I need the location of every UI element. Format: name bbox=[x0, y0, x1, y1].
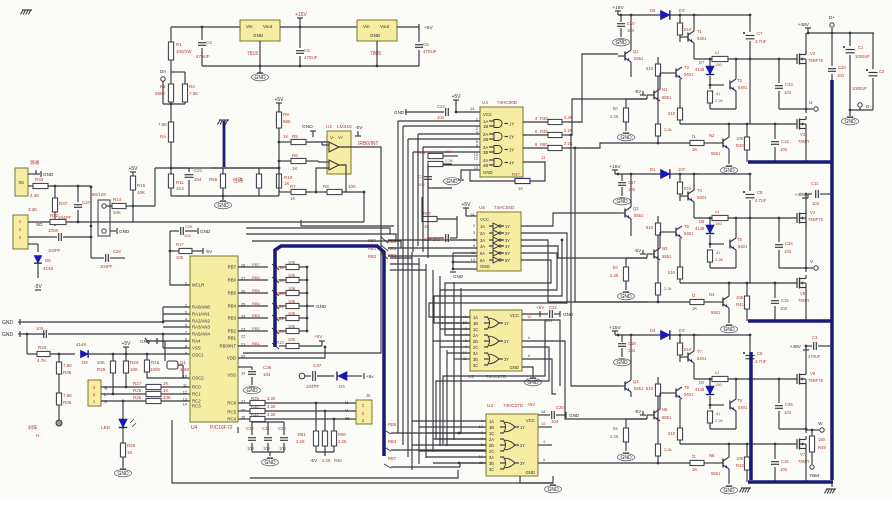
svg-text:3A: 3A bbox=[489, 455, 494, 460]
wire bbox=[316, 452, 334, 456]
transistor T3 bbox=[668, 67, 682, 79]
svg-text:3B: 3B bbox=[473, 357, 478, 362]
svg-text:R30: R30 bbox=[251, 404, 259, 409]
svg-text:U5: U5 bbox=[479, 205, 485, 210]
wire bbox=[456, 100, 480, 112]
svg-text:5551: 5551 bbox=[662, 415, 672, 420]
svg-text:2.2K: 2.2K bbox=[715, 257, 724, 262]
svg-text:1A: 1A bbox=[473, 315, 478, 320]
svg-text:104: 104 bbox=[628, 187, 636, 192]
junction bbox=[805, 267, 808, 270]
wire bbox=[694, 43, 712, 59]
resistor d1 ch2 bbox=[707, 250, 712, 268]
label 10K bbox=[736, 456, 744, 461]
label C20b bbox=[838, 65, 846, 70]
label C24 102 bbox=[424, 237, 441, 242]
svg-text:100K: 100K bbox=[48, 228, 59, 233]
power +5V r13 bbox=[314, 334, 325, 346]
wire bbox=[805, 452, 807, 482]
svg-text:OSC1: OSC1 bbox=[192, 353, 204, 358]
label T9 bbox=[737, 398, 743, 403]
junction bbox=[112, 353, 115, 356]
junction bbox=[709, 84, 712, 87]
wire bbox=[260, 41, 377, 66]
svg-text:12: 12 bbox=[527, 314, 532, 319]
wire bbox=[522, 358, 545, 360]
resistor R40 bbox=[744, 124, 749, 162]
label C28 bbox=[113, 249, 121, 254]
svg-text:103: 103 bbox=[784, 90, 792, 95]
svg-text:2.2k: 2.2k bbox=[664, 286, 672, 291]
wire bbox=[172, 420, 553, 483]
label 1K bbox=[284, 181, 290, 186]
label V7 bbox=[800, 452, 806, 457]
label R38 bbox=[540, 116, 548, 121]
wire bbox=[397, 26, 419, 28]
svg-text:R39: R39 bbox=[540, 129, 548, 134]
svg-text:GND: GND bbox=[217, 203, 229, 209]
svg-text:R8: R8 bbox=[323, 184, 329, 189]
label 56K bbox=[283, 119, 291, 124]
junction bbox=[746, 282, 749, 285]
wire bbox=[91, 187, 104, 258]
resistor R30 bbox=[250, 408, 356, 413]
svg-text:1000UF: 1000UF bbox=[852, 86, 867, 91]
mosfet V7 bbox=[797, 436, 806, 452]
svg-text:1K: 1K bbox=[692, 467, 697, 472]
svg-text:1B: 1B bbox=[483, 124, 488, 129]
svg-text:2.2K: 2.2K bbox=[296, 439, 305, 444]
svg-text:104: 104 bbox=[551, 419, 559, 424]
junction bbox=[709, 58, 712, 61]
svg-text:104: 104 bbox=[263, 372, 271, 377]
wire bbox=[615, 331, 700, 335]
wire bbox=[523, 162, 545, 181]
capacitor C10 bbox=[617, 15, 625, 37]
net IRB0INT bbox=[358, 141, 379, 147]
earth top-left bbox=[21, 10, 33, 15]
label 470UF bbox=[808, 354, 821, 359]
wire bbox=[238, 290, 286, 296]
junction bbox=[146, 353, 149, 356]
pin labels U4 right bbox=[220, 264, 246, 422]
ground GND n ch1 bbox=[721, 166, 738, 174]
svg-text:C5: C5 bbox=[304, 48, 310, 53]
ground GND caps bbox=[262, 458, 279, 466]
capacitor C6 bbox=[415, 27, 423, 66]
label R20 bbox=[276, 291, 284, 296]
label T3 bbox=[684, 65, 690, 70]
label 4148 bbox=[695, 226, 705, 231]
wire bbox=[22, 321, 163, 323]
svg-text:74HC00D: 74HC00D bbox=[497, 100, 518, 105]
terminal ct bbox=[299, 373, 305, 379]
wire bbox=[556, 462, 648, 464]
ground GND ch2 bbox=[614, 198, 631, 205]
svg-text:103: 103 bbox=[263, 446, 271, 451]
resistor R14 bbox=[112, 203, 133, 208]
label 10K bbox=[130, 367, 138, 372]
label 2.2k bbox=[664, 447, 672, 452]
svg-text:104: 104 bbox=[194, 177, 202, 182]
wire bbox=[521, 246, 647, 258]
power +48V ch1 bbox=[798, 22, 811, 33]
wire bbox=[170, 231, 190, 285]
svg-text:3.3K: 3.3K bbox=[267, 404, 276, 409]
resistor 150 ch2 bbox=[712, 215, 750, 220]
resistor R23 bbox=[286, 328, 307, 333]
junction bbox=[570, 134, 573, 137]
svg-text:C15: C15 bbox=[781, 298, 789, 303]
svg-text:150: 150 bbox=[715, 62, 722, 67]
label 4148 bbox=[43, 266, 54, 271]
svg-text:V-: V- bbox=[330, 135, 335, 140]
svg-text:+5V: +5V bbox=[128, 166, 138, 172]
svg-text:GND: GND bbox=[620, 455, 632, 461]
resistor R1 bbox=[168, 27, 173, 72]
wire bbox=[728, 469, 730, 484]
svg-text:11: 11 bbox=[471, 251, 475, 255]
svg-text:R16: R16 bbox=[151, 360, 160, 365]
label 74HC04D bbox=[494, 205, 515, 210]
resistor R49 bbox=[809, 430, 814, 464]
svg-text:R25: R25 bbox=[133, 395, 142, 400]
label 2.2K bbox=[715, 257, 724, 262]
label C21 bbox=[194, 168, 203, 173]
svg-text:GND: GND bbox=[2, 320, 14, 326]
junction bbox=[324, 346, 327, 349]
wire bbox=[522, 367, 533, 377]
resistor R18 bbox=[286, 264, 307, 269]
svg-text:5551: 5551 bbox=[711, 151, 721, 156]
wire bbox=[626, 415, 647, 419]
wire bbox=[805, 33, 807, 52]
label R15 bbox=[137, 183, 146, 188]
net RB6 bbox=[252, 275, 261, 280]
label V2 bbox=[810, 51, 816, 56]
svg-text:+5V: +5V bbox=[424, 25, 433, 31]
label R8 bbox=[323, 184, 329, 189]
svg-text:2C: 2C bbox=[489, 449, 494, 454]
label 470UF bbox=[304, 55, 318, 60]
ground GND q1 bbox=[140, 338, 165, 356]
svg-text:11: 11 bbox=[183, 384, 187, 388]
svg-text:+15V: +15V bbox=[609, 164, 621, 170]
junction bbox=[749, 173, 752, 176]
label 10K bbox=[288, 286, 296, 291]
svg-text:C32: C32 bbox=[246, 426, 254, 431]
label 75NFI bbox=[798, 139, 809, 144]
svg-text:VCC: VCC bbox=[510, 313, 519, 318]
svg-text:X5: X5 bbox=[18, 180, 24, 185]
svg-text:RB6: RB6 bbox=[252, 275, 261, 280]
svg-text:2.2K: 2.2K bbox=[445, 158, 454, 163]
wire bbox=[522, 340, 545, 342]
label X5 name bbox=[30, 159, 40, 166]
capacitor C20 bbox=[538, 411, 566, 419]
wire bbox=[615, 170, 700, 174]
svg-text:470UF: 470UF bbox=[196, 54, 210, 59]
junction bbox=[278, 141, 281, 144]
wire bbox=[238, 347, 325, 358]
transistor T4 bbox=[680, 190, 694, 202]
wire bbox=[538, 462, 556, 464]
label 104PF bbox=[306, 384, 320, 389]
resistor R33 bbox=[33, 183, 91, 188]
wire bbox=[212, 167, 279, 169]
svg-text:1Y: 1Y bbox=[509, 122, 514, 127]
label R17 bbox=[176, 242, 184, 247]
label T7 bbox=[697, 349, 703, 354]
svg-text:5401: 5401 bbox=[697, 195, 707, 200]
svg-text:b5: b5 bbox=[613, 426, 618, 431]
ground GND mclr bbox=[200, 229, 211, 234]
label 74HC27D bbox=[486, 374, 507, 379]
svg-text:D-: D- bbox=[866, 104, 871, 109]
svg-text:1K: 1K bbox=[692, 306, 697, 311]
label 2.2k bbox=[664, 286, 672, 291]
svg-text:R13: R13 bbox=[276, 340, 284, 345]
junction bbox=[458, 432, 461, 435]
svg-text:C30: C30 bbox=[278, 426, 286, 431]
diode D5 bbox=[34, 256, 42, 279]
label U5 bbox=[479, 205, 485, 210]
svg-text:13: 13 bbox=[474, 166, 478, 170]
junction bbox=[774, 123, 777, 126]
label R25b bbox=[133, 395, 142, 400]
svg-text:GND: GND bbox=[246, 388, 258, 394]
capacitor C17 bbox=[618, 174, 626, 196]
svg-text:RB7: RB7 bbox=[252, 262, 261, 267]
svg-text:D4: D4 bbox=[339, 384, 345, 389]
junction bbox=[749, 378, 752, 381]
connector J4 bbox=[88, 380, 101, 406]
earth navy corner bbox=[825, 483, 837, 494]
svg-text:10K: 10K bbox=[137, 190, 145, 195]
svg-text:Vin: Vin bbox=[363, 24, 370, 29]
label 10K bbox=[137, 190, 145, 195]
svg-text:14: 14 bbox=[470, 213, 474, 217]
label b0 bbox=[613, 265, 618, 270]
label C37 bbox=[313, 363, 322, 368]
svg-text:U4: U4 bbox=[482, 100, 488, 105]
svg-text:4148: 4148 bbox=[695, 67, 705, 72]
svg-text:GND: GND bbox=[446, 179, 458, 185]
wire bbox=[163, 307, 190, 327]
power +15V ch3 bbox=[609, 325, 621, 331]
transistor T9 bbox=[668, 387, 682, 399]
label R53 bbox=[418, 150, 426, 155]
wire bbox=[246, 234, 396, 240]
svg-text:D1: D1 bbox=[650, 167, 656, 172]
svg-text:4A: 4A bbox=[480, 244, 485, 249]
bus navy ch2 bbox=[748, 319, 833, 323]
power -5V cluster bbox=[310, 458, 342, 463]
svg-text:1K: 1K bbox=[163, 388, 169, 393]
wire bbox=[694, 202, 712, 218]
svg-text:SD: SD bbox=[36, 222, 43, 227]
label C23 bbox=[437, 104, 445, 109]
label f bbox=[692, 454, 696, 459]
ground GND ladder bbox=[307, 304, 327, 309]
svg-text:+5V: +5V bbox=[451, 94, 461, 100]
svg-text:R11: R11 bbox=[176, 180, 184, 185]
wire bbox=[466, 208, 477, 216]
svg-text:470UF: 470UF bbox=[808, 354, 821, 359]
resistor R41 bbox=[744, 283, 749, 321]
wire bbox=[522, 319, 545, 321]
label C15 bbox=[781, 298, 789, 303]
svg-text:V3: V3 bbox=[800, 132, 806, 137]
label 75NFI bbox=[798, 298, 809, 303]
svg-text:R5: R5 bbox=[292, 134, 298, 139]
svg-text:+5V: +5V bbox=[274, 97, 284, 103]
wire bbox=[384, 463, 486, 468]
svg-text:-5V: -5V bbox=[634, 248, 642, 253]
svg-text:GND: GND bbox=[254, 75, 266, 81]
svg-text:3A: 3A bbox=[480, 238, 485, 243]
power +15V bar bbox=[297, 18, 303, 27]
junction bbox=[26, 333, 29, 336]
svg-text:150: 150 bbox=[818, 437, 826, 442]
svg-text:5401: 5401 bbox=[684, 392, 694, 397]
svg-text:GND: GND bbox=[117, 471, 129, 477]
svg-text:1Y: 1Y bbox=[504, 321, 509, 326]
svg-text:RB2: RB2 bbox=[368, 254, 377, 259]
svg-text:C17: C17 bbox=[628, 180, 636, 185]
svg-text:C25: C25 bbox=[185, 224, 193, 229]
label C3 bbox=[812, 335, 818, 340]
label 104PF bbox=[58, 215, 72, 220]
svg-text:N1: N1 bbox=[662, 87, 668, 92]
label R41 bbox=[736, 302, 744, 307]
resistor R54 bbox=[428, 161, 452, 166]
wire bbox=[470, 171, 515, 181]
svg-text:RA: RA bbox=[160, 134, 166, 139]
svg-text:GND: GND bbox=[844, 119, 856, 125]
wire bbox=[238, 328, 286, 334]
svg-text:C1: C1 bbox=[858, 45, 864, 50]
wire bbox=[520, 476, 553, 483]
svg-text:510: 510 bbox=[668, 270, 676, 275]
svg-text:C16: C16 bbox=[781, 459, 789, 464]
resistor R60 bbox=[548, 145, 568, 150]
junction bbox=[77, 185, 80, 188]
ic U2 74HC27D bbox=[470, 310, 522, 371]
svg-text:80/120: 80/120 bbox=[92, 192, 106, 197]
label d1 bbox=[716, 91, 721, 96]
svg-text:D0: D0 bbox=[699, 380, 705, 385]
transistor N3 bbox=[647, 248, 660, 260]
svg-text:GND: GND bbox=[480, 264, 490, 269]
pin 5 bbox=[543, 457, 546, 462]
label R25 bbox=[97, 367, 106, 372]
ground GND vdd bbox=[244, 387, 261, 394]
label 5551 bbox=[662, 415, 672, 420]
svg-text:Vout: Vout bbox=[380, 24, 390, 29]
resistor R29 bbox=[250, 400, 356, 405]
label 104 bbox=[545, 318, 553, 323]
resistor R3 bbox=[171, 72, 188, 104]
svg-text:7.5K: 7.5K bbox=[158, 122, 167, 127]
svg-text:1K: 1K bbox=[127, 450, 133, 455]
label 10K bbox=[288, 311, 296, 316]
ground GND u5pins bbox=[450, 272, 464, 279]
svg-text:d1: d1 bbox=[716, 250, 721, 255]
label Q bbox=[104, 385, 108, 390]
svg-text:+48V: +48V bbox=[790, 344, 802, 350]
wire bbox=[750, 378, 797, 380]
capacitor C3 bbox=[814, 342, 832, 350]
net RB1 bbox=[388, 246, 397, 251]
label C7 bbox=[418, 174, 424, 179]
label C22 bbox=[549, 305, 557, 310]
label 4148 bbox=[76, 342, 87, 347]
label 16M bbox=[180, 367, 189, 372]
wire bbox=[808, 32, 874, 34]
svg-text:75NFI: 75NFI bbox=[798, 459, 809, 464]
power +5V r9 bbox=[274, 97, 284, 103]
junction bbox=[125, 386, 128, 389]
label 10K bbox=[113, 210, 121, 215]
svg-text:D5: D5 bbox=[650, 8, 656, 13]
capacitor C33 bbox=[775, 59, 783, 109]
label 1K bbox=[292, 166, 298, 171]
pin numbers U3 bbox=[479, 419, 483, 465]
svg-text:R2: R2 bbox=[160, 84, 166, 89]
svg-text:RB5: RB5 bbox=[228, 291, 237, 296]
label 5551 bbox=[711, 310, 721, 315]
wire bbox=[28, 244, 38, 252]
junction bbox=[679, 334, 682, 337]
junction bbox=[735, 58, 738, 61]
svg-text:U: U bbox=[345, 400, 348, 405]
label C16 bbox=[781, 459, 789, 464]
svg-text:10K: 10K bbox=[348, 184, 356, 189]
junction bbox=[299, 65, 302, 68]
label RA bbox=[160, 134, 166, 139]
svg-text:10K: 10K bbox=[445, 149, 452, 154]
svg-text:10K: 10K bbox=[736, 295, 744, 300]
svg-text:+48V: +48V bbox=[795, 192, 807, 198]
label R50 bbox=[338, 432, 346, 437]
svg-text:Q3: Q3 bbox=[633, 379, 639, 384]
label 150 bbox=[715, 382, 722, 387]
wire bbox=[630, 174, 632, 236]
svg-text:4148: 4148 bbox=[43, 266, 54, 271]
power +5V mid bbox=[121, 341, 131, 347]
diode D1 bbox=[661, 169, 670, 178]
svg-text:VCC: VCC bbox=[480, 217, 489, 222]
svg-text:R9: R9 bbox=[283, 112, 289, 117]
junction bbox=[728, 443, 731, 446]
wire bbox=[202, 65, 419, 67]
svg-text:R50: R50 bbox=[338, 432, 346, 437]
bus navy PWM bbox=[275, 246, 384, 456]
svg-text:1B: 1B bbox=[489, 425, 494, 430]
power -5V ch3 bbox=[634, 409, 646, 415]
power +5V u2 bbox=[536, 305, 545, 310]
wire bbox=[434, 240, 562, 323]
svg-text:R28: R28 bbox=[127, 443, 136, 448]
svg-text:U4: U4 bbox=[191, 425, 198, 431]
resistor R53 bbox=[428, 153, 458, 158]
capacitor C32 bbox=[248, 422, 256, 452]
wire bbox=[729, 282, 797, 284]
diode D5 bbox=[661, 10, 670, 19]
resistor R8 bbox=[316, 189, 346, 194]
wire bbox=[125, 386, 127, 387]
